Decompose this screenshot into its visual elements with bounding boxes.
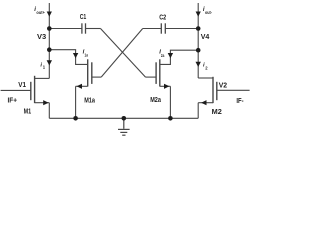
svg-text:out+: out+ [36, 10, 45, 15]
wire V3 node to M1a drain [49, 50, 87, 65]
svg-text:C2: C2 [159, 15, 166, 22]
transistor M1 channel [34, 76, 36, 103]
transistor M2a channel [159, 59, 161, 86]
arrow M2a source [164, 84, 169, 89]
arrow M2 source [201, 100, 206, 105]
wire M1a source lead [76, 85, 88, 87]
wire M1 source lead [35, 102, 50, 104]
wire C1 right [86, 28, 101, 30]
wire V4 node to M2a drain [160, 50, 198, 64]
transistor M1a gate bar [91, 62, 93, 84]
wire V3 to C1 [49, 28, 82, 30]
node V3 junction dot [47, 26, 52, 31]
capacitor C2 [161, 23, 165, 33]
arrow i_out+ [47, 12, 52, 17]
wire diagonal C2 to M1a gate [101, 29, 143, 78]
svg-text:V4: V4 [201, 32, 210, 41]
wire M1 source down [48, 103, 50, 119]
capacitor C1 [82, 23, 86, 33]
node V3 lower junction dot [47, 47, 52, 52]
wire M1a source down [75, 86, 77, 118]
svg-text:IF+: IF+ [8, 95, 18, 104]
arrow i_2a [168, 53, 173, 58]
svg-text:M2a: M2a [150, 97, 161, 104]
wire C2 to V4 [165, 28, 198, 30]
wire V4 vertical [197, 3, 199, 78]
wire ground rail [49, 117, 198, 119]
svg-text:V3: V3 [37, 32, 46, 41]
wire M2a source down [169, 86, 171, 118]
svg-text:1: 1 [43, 65, 46, 70]
svg-text:M2: M2 [212, 109, 222, 116]
wire M2a gate lead [146, 76, 157, 78]
junction dot M1a source on rail [73, 116, 78, 121]
arrow M1a source [77, 84, 82, 89]
arrow i_2 [196, 62, 201, 67]
svg-text:1a: 1a [85, 53, 89, 58]
junction dot ground on rail [122, 116, 127, 121]
svg-text:IF-: IF- [236, 96, 244, 105]
svg-text:out-: out- [205, 10, 212, 15]
transistor M2 channel [212, 77, 214, 103]
transistor M1 gate bar [30, 82, 32, 100]
wire M2a source lead [160, 85, 171, 87]
svg-text:M1: M1 [24, 108, 32, 115]
arrow M1 source [43, 100, 48, 105]
junction dot M2a source on rail [168, 116, 173, 121]
svg-text:C1: C1 [80, 14, 87, 21]
wire M1 drain lead [35, 77, 50, 79]
node V4 junction dot [196, 26, 201, 31]
wire C2 left [143, 28, 162, 30]
svg-text:M1a: M1a [84, 97, 95, 104]
svg-text:2: 2 [205, 65, 208, 70]
wire M1a gate lead [92, 76, 101, 78]
node V4 lower junction dot [196, 48, 201, 53]
wire M2 source lead [198, 102, 213, 104]
transistor M1a channel [87, 59, 89, 86]
svg-text:2a: 2a [161, 53, 165, 58]
wire diagonal C1 to M2a gate [101, 29, 146, 78]
wire M2 gate lead IF- [217, 89, 250, 91]
wire M1 gate lead IF+ [1, 89, 31, 91]
svg-text:V1: V1 [18, 80, 26, 89]
wire M2 drain lead [198, 77, 213, 79]
svg-text:V2: V2 [219, 80, 227, 89]
transistor M2a gate bar [155, 62, 157, 84]
arrow i_1a [73, 53, 78, 58]
ground symbol [118, 118, 130, 135]
wire V3 vertical [48, 3, 50, 78]
wire M2 source down [197, 103, 199, 119]
arrow i_1 [47, 60, 52, 65]
transistor M2 gate bar [216, 82, 218, 100]
arrow i_out- [196, 12, 201, 17]
